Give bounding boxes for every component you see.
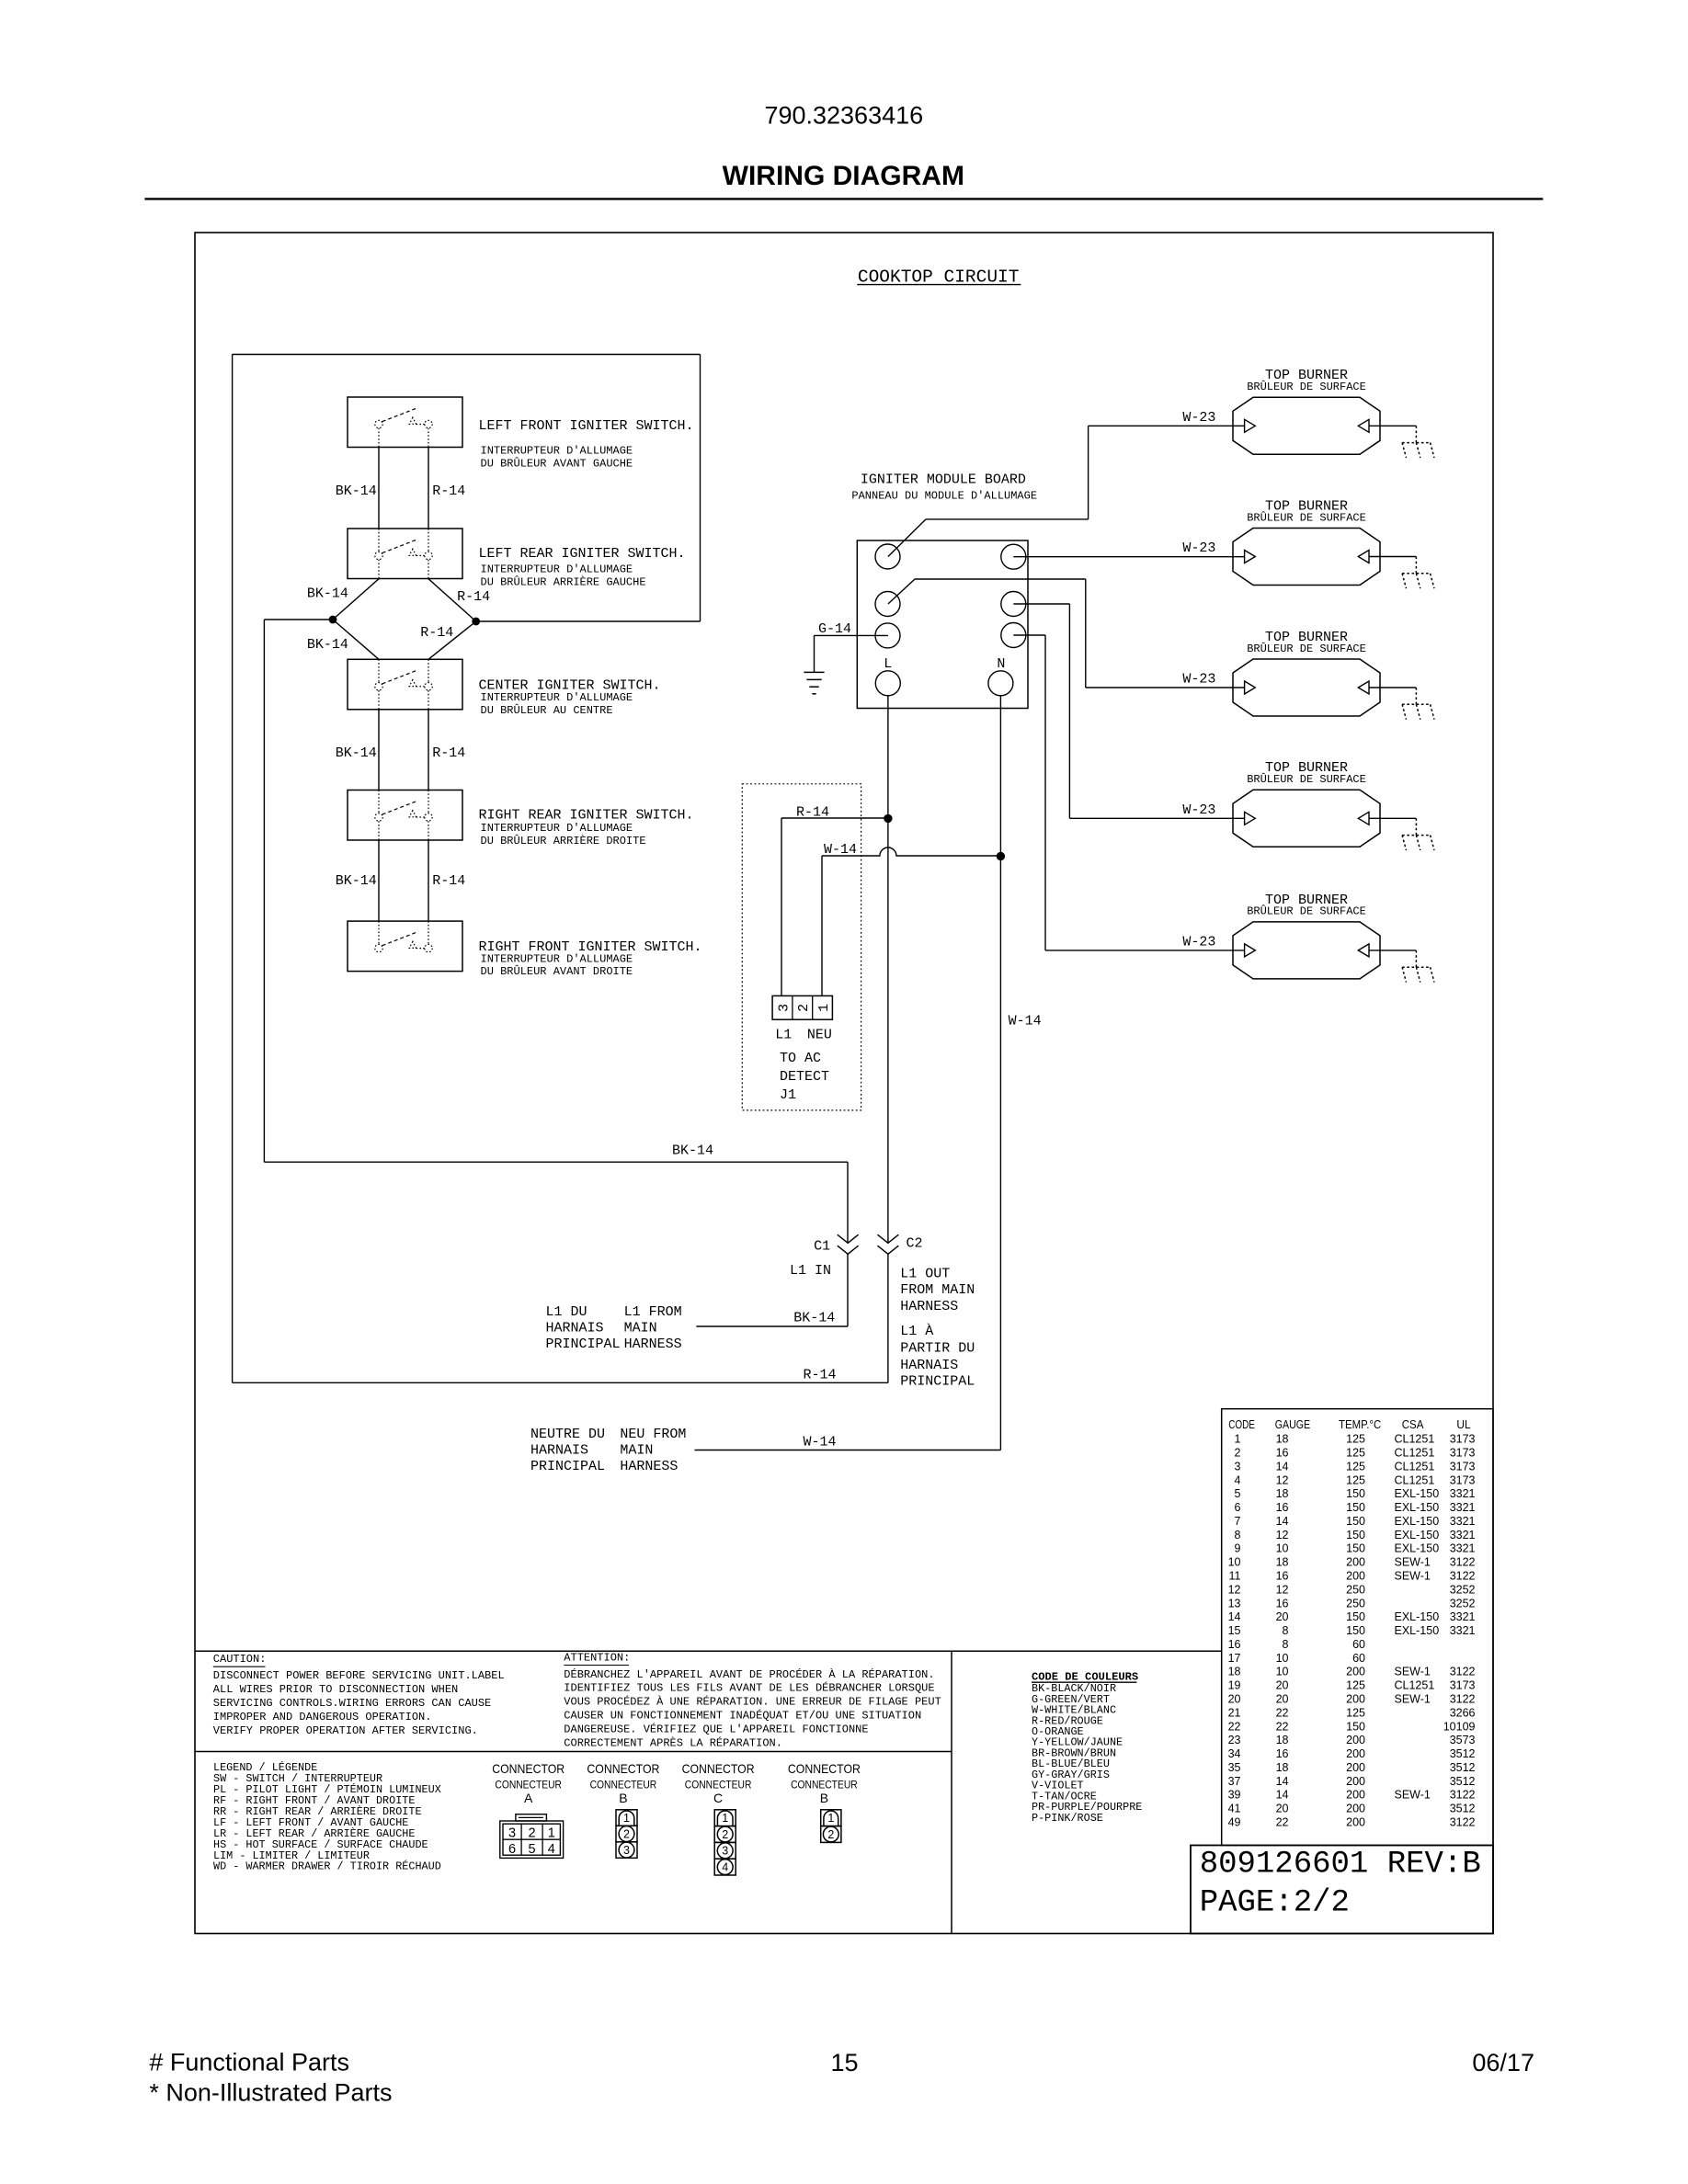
burner 4 right arrow: [1358, 812, 1369, 825]
label NEUTRE DU HARNAIS PRINCIPAL: [530, 1427, 605, 1474]
svg-text:INTERRUPTEUR D'ALLUMAGE: INTERRUPTEUR D'ALLUMAGE: [481, 822, 633, 835]
svg-text:22: 22: [1276, 1706, 1289, 1719]
wire R-14 bottom run to C2: [233, 1382, 888, 1383]
svg-text:1: 1: [827, 1812, 834, 1825]
burner 5 electrode wire: [1369, 950, 1416, 951]
wire R-14 SW-LR to node R (diagonal): [428, 579, 476, 621]
wire N drop from module: [999, 695, 1001, 1450]
connector B2 2-pin stack: [821, 1810, 841, 1843]
divider below caution section: [195, 1751, 952, 1753]
wire BK-14 SW-LR to node BK (diagonal): [333, 579, 379, 620]
svg-text:16: 16: [1276, 1747, 1289, 1760]
label RIGHT REAR IGNITER SWITCH.: [479, 808, 694, 847]
svg-text:CONNECTEUR: CONNECTEUR: [590, 1779, 657, 1792]
label LEFT REAR IGNITER SWITCH.: [479, 546, 686, 588]
burner 3 spark electrode: [1402, 688, 1434, 720]
svg-text:200: 200: [1346, 1693, 1365, 1706]
svg-text:CORRECTEMENT APRÈS LA RÉPARATI: CORRECTEMENT APRÈS LA RÉPARATION.: [564, 1735, 782, 1749]
svg-text:3573: 3573: [1450, 1734, 1476, 1746]
wire R-14 SW-LF to SW-LR: [428, 448, 429, 529]
svg-text:20: 20: [1276, 1679, 1289, 1692]
svg-text:1: 1: [722, 1812, 728, 1825]
svg-text:ALL WIRES PRIOR TO DISCONNECTI: ALL WIRES PRIOR TO DISCONNECTION WHEN: [213, 1683, 458, 1696]
caution text block: [213, 1653, 505, 1737]
svg-text:809126601 REV:B: 809126601 REV:B: [1200, 1848, 1481, 1883]
svg-text:14: 14: [1276, 1789, 1289, 1802]
svg-text:3122: 3122: [1450, 1556, 1476, 1569]
svg-text:LEFT FRONT IGNITER SWITCH.: LEFT FRONT IGNITER SWITCH.: [479, 418, 694, 434]
svg-text:17: 17: [1228, 1652, 1241, 1665]
svg-text:3321: 3321: [1450, 1501, 1476, 1514]
svg-text:CONNECTOR: CONNECTOR: [788, 1761, 861, 1776]
svg-text:SEW-1: SEW-1: [1395, 1693, 1431, 1706]
svg-text:PANNEAU DU MODULE D'ALLUMAGE: PANNEAU DU MODULE D'ALLUMAGE: [851, 489, 1037, 502]
svg-text:CL1251: CL1251: [1395, 1679, 1435, 1692]
svg-text:HARNAIS: HARNAIS: [530, 1443, 588, 1459]
svg-text:125: 125: [1346, 1460, 1365, 1473]
connector header C: [682, 1761, 755, 1805]
svg-text:6: 6: [1235, 1501, 1241, 1514]
svg-text:INTERRUPTEUR D'ALLUMAGE: INTERRUPTEUR D'ALLUMAGE: [481, 953, 633, 966]
svg-text:CL1251: CL1251: [1395, 1460, 1435, 1473]
svg-text:150: 150: [1346, 1542, 1365, 1555]
label L1 FROM MAIN HARNESS: [624, 1304, 682, 1352]
svg-text:39: 39: [1228, 1789, 1241, 1802]
svg-text:3173: 3173: [1450, 1460, 1476, 1473]
igniter switch SW-RF box: [348, 921, 462, 972]
svg-text:WIRING DIAGRAM: WIRING DIAGRAM: [723, 161, 964, 191]
module terminal pin 2 (top-right): [1001, 544, 1026, 569]
svg-text:3252: 3252: [1450, 1597, 1476, 1610]
svg-text:3321: 3321: [1450, 1542, 1476, 1555]
svg-text:37: 37: [1228, 1775, 1241, 1788]
svg-text:R-14: R-14: [432, 483, 465, 499]
label L1 NEU: [775, 1028, 832, 1043]
svg-text:* Non-Illustrated Parts: * Non-Illustrated Parts: [149, 2079, 392, 2107]
svg-text:200: 200: [1346, 1761, 1365, 1774]
wire module pin3 to top burner 3: [888, 579, 1245, 688]
svg-text:PRINCIPAL: PRINCIPAL: [530, 1459, 605, 1474]
svg-text:EXL-150: EXL-150: [1395, 1610, 1440, 1623]
svg-text:200: 200: [1346, 1803, 1365, 1815]
svg-text:3321: 3321: [1450, 1529, 1476, 1541]
svg-text:3122: 3122: [1450, 1570, 1476, 1583]
svg-text:ATTENTION:: ATTENTION:: [564, 1651, 630, 1664]
label RIGHT FRONT IGNITER SWITCH.: [479, 939, 702, 978]
label NEU FROM MAIN HARNESS: [620, 1427, 686, 1474]
igniter switch SW-RF symbol: [375, 921, 432, 952]
wire BK-14 SW-LF to SW-LR: [378, 448, 380, 529]
svg-text:B: B: [820, 1791, 828, 1805]
svg-text:INTERRUPTEUR D'ALLUMAGE: INTERRUPTEUR D'ALLUMAGE: [481, 691, 633, 704]
svg-text:3: 3: [1235, 1460, 1241, 1473]
burner 5 right arrow: [1358, 944, 1369, 957]
wire W-14 AC detect pin1 to N drop (hump over L wire): [822, 847, 1000, 995]
svg-text:14: 14: [1228, 1610, 1241, 1623]
wire L drop from module to C2: [887, 695, 889, 1243]
svg-text:EXL-150: EXL-150: [1395, 1501, 1440, 1514]
connector C1 chevrons: [838, 1234, 859, 1254]
burner 2 electrode wire: [1369, 556, 1416, 558]
svg-text:TEMP.°C: TEMP.°C: [1339, 1418, 1381, 1431]
svg-text:DANGEREUSE. VÉRIFIEZ QUE L'APP: DANGEREUSE. VÉRIFIEZ QUE L'APPAREIL FONC…: [564, 1722, 868, 1735]
svg-text:C1: C1: [814, 1239, 830, 1255]
svg-text:CSA: CSA: [1402, 1418, 1424, 1431]
svg-text:4: 4: [1235, 1473, 1241, 1486]
svg-text:R-14: R-14: [420, 625, 453, 641]
junction dot R-14 / L: [884, 814, 892, 822]
svg-text:NEU FROM: NEU FROM: [620, 1427, 686, 1442]
label L1 A PARTIR DU HARNAIS PRINCIPAL: [900, 1323, 975, 1390]
svg-text:NEU: NEU: [807, 1028, 832, 1043]
legend text block: [213, 1761, 441, 1873]
burner 2 spark electrode: [1402, 557, 1434, 589]
svg-text:EXL-150: EXL-150: [1395, 1487, 1440, 1500]
svg-text:CODE: CODE: [1228, 1418, 1255, 1431]
svg-text:J1: J1: [780, 1087, 796, 1103]
svg-text:BK-14: BK-14: [336, 745, 377, 761]
svg-text:P-PINK/ROSE: P-PINK/ROSE: [1032, 1812, 1103, 1825]
svg-text:GAUGE: GAUGE: [1275, 1418, 1310, 1431]
svg-text:4: 4: [548, 1842, 555, 1857]
wire R-14 loop left edge (down): [232, 355, 234, 1383]
svg-text:N: N: [997, 656, 1005, 672]
wire R-14 node R to loop right edge: [476, 620, 701, 622]
label TO AC DETECT J1: [780, 1051, 829, 1103]
wire module pin2 to top burner 2: [1013, 556, 1244, 558]
junction dot W-14 / N: [997, 852, 1004, 859]
svg-text:SEW-1: SEW-1: [1395, 1570, 1431, 1583]
svg-text:5: 5: [1235, 1487, 1241, 1500]
wire BK-14 below C1 to main harness: [696, 1254, 848, 1326]
connector header B: [587, 1761, 659, 1805]
svg-text:SERVICING CONTROLS.WIRING ERRO: SERVICING CONTROLS.WIRING ERRORS CAN CAU…: [213, 1697, 491, 1710]
igniter switch SW-C symbol: [375, 659, 432, 710]
svg-text:CONNECTEUR: CONNECTEUR: [495, 1779, 562, 1792]
svg-text:150: 150: [1346, 1624, 1365, 1637]
ground symbol: [804, 672, 824, 693]
svg-text:60: 60: [1352, 1652, 1365, 1665]
svg-text:CL1251: CL1251: [1395, 1447, 1435, 1460]
top burner 5: [1233, 893, 1380, 979]
wire BK node to SW-C (diagonal): [333, 620, 379, 659]
svg-text:3122: 3122: [1450, 1693, 1476, 1706]
svg-text:R-14: R-14: [432, 745, 465, 761]
svg-text:200: 200: [1346, 1734, 1365, 1746]
svg-text:A: A: [524, 1791, 533, 1805]
svg-text:250: 250: [1346, 1597, 1365, 1610]
svg-text:18: 18: [1228, 1666, 1241, 1678]
svg-text:W-23: W-23: [1182, 672, 1215, 688]
svg-text:MAIN: MAIN: [624, 1321, 657, 1337]
outer diagram border: [195, 233, 1493, 1934]
svg-text:CONNECTOR: CONNECTOR: [587, 1761, 659, 1776]
svg-text:20: 20: [1276, 1803, 1289, 1815]
svg-text:L1 OUT: L1 OUT: [900, 1267, 950, 1282]
svg-text:22: 22: [1276, 1816, 1289, 1829]
svg-text:60: 60: [1352, 1638, 1365, 1651]
svg-text:150: 150: [1346, 1501, 1365, 1514]
svg-text:200: 200: [1346, 1666, 1365, 1678]
svg-text:BRÛLEUR DE SURFACE: BRÛLEUR DE SURFACE: [1247, 510, 1366, 524]
svg-text:DETECT: DETECT: [780, 1069, 829, 1085]
svg-text:10: 10: [1276, 1652, 1289, 1665]
connector header B: [788, 1761, 861, 1805]
svg-text:14: 14: [1276, 1775, 1289, 1788]
wire gauge table box: [1222, 1409, 1493, 1846]
svg-text:200: 200: [1346, 1570, 1365, 1583]
svg-text:W-14: W-14: [1009, 1014, 1042, 1029]
svg-text:8: 8: [1283, 1624, 1289, 1637]
svg-text:CONNECTOR: CONNECTOR: [492, 1761, 565, 1776]
svg-text:18: 18: [1276, 1556, 1289, 1569]
wire module pin4 to top burner 4: [1013, 604, 1244, 818]
svg-text:3122: 3122: [1450, 1666, 1476, 1678]
top burner 4: [1233, 760, 1380, 847]
svg-text:R-14: R-14: [457, 589, 490, 605]
svg-text:2: 2: [722, 1828, 728, 1841]
svg-text:PAGE:2/2: PAGE:2/2: [1200, 1886, 1350, 1921]
svg-text:EXL-150: EXL-150: [1395, 1529, 1440, 1541]
svg-text:6: 6: [508, 1842, 516, 1857]
svg-text:WD - WARMER DRAWER / TIROIR RÉ: WD - WARMER DRAWER / TIROIR RÉCHAUD: [213, 1860, 441, 1873]
svg-text:3122: 3122: [1450, 1789, 1476, 1802]
svg-text:125: 125: [1346, 1473, 1365, 1486]
wire R-14 SW-C to SW-RR: [428, 710, 429, 791]
label L1 OUT FROM MAIN HARNESS: [900, 1267, 975, 1314]
svg-text:16: 16: [1228, 1638, 1241, 1651]
igniter switch SW-LR box: [348, 529, 462, 579]
svg-text:150: 150: [1346, 1515, 1365, 1528]
igniter switch SW-LF box: [348, 397, 462, 448]
svg-text:INTERRUPTEUR D'ALLUMAGE: INTERRUPTEUR D'ALLUMAGE: [481, 563, 633, 575]
svg-text:125: 125: [1346, 1706, 1365, 1719]
svg-text:C2: C2: [907, 1236, 923, 1252]
svg-text:CL1251: CL1251: [1395, 1433, 1435, 1446]
svg-text:8: 8: [1235, 1529, 1241, 1541]
footer functional parts note: [149, 2049, 392, 2107]
burner 3 right arrow: [1358, 681, 1369, 694]
svg-text:12: 12: [1228, 1583, 1241, 1596]
svg-text:12: 12: [1276, 1583, 1289, 1596]
svg-text:W-23: W-23: [1182, 540, 1215, 556]
svg-text:IGNITER MODULE BOARD: IGNITER MODULE BOARD: [861, 472, 1026, 488]
svg-text:2: 2: [623, 1828, 630, 1841]
burner 5 spark electrode: [1402, 950, 1434, 983]
svg-text:BK-14: BK-14: [307, 637, 348, 653]
divider above caution section: [195, 1650, 1222, 1652]
burner 5 left arrow: [1245, 944, 1256, 957]
svg-text:PARTIR DU: PARTIR DU: [900, 1341, 975, 1357]
svg-text:L1 IN: L1 IN: [790, 1263, 831, 1279]
svg-text:2: 2: [796, 1004, 812, 1012]
svg-text:06/17: 06/17: [1472, 2049, 1534, 2076]
svg-text:1: 1: [623, 1812, 630, 1825]
wire BK-14 node BK to left drop: [264, 619, 333, 620]
igniter switch SW-LF symbol: [375, 408, 432, 448]
svg-text:TO AC: TO AC: [780, 1051, 821, 1066]
svg-text:# Functional Parts: # Functional Parts: [149, 2049, 349, 2076]
burner 4 spark electrode: [1402, 818, 1434, 850]
svg-text:EXL-150: EXL-150: [1395, 1542, 1440, 1555]
svg-text:1: 1: [548, 1826, 555, 1840]
top burner 3: [1233, 630, 1380, 716]
svg-text:DU BRÛLEUR AVANT DROITE: DU BRÛLEUR AVANT DROITE: [481, 964, 633, 978]
svg-text:3252: 3252: [1450, 1583, 1476, 1596]
igniter switch SW-LR symbol: [375, 529, 432, 579]
svg-text:20: 20: [1228, 1693, 1241, 1706]
svg-text:3512: 3512: [1450, 1775, 1476, 1788]
svg-text:R-14: R-14: [804, 1368, 837, 1383]
svg-text:125: 125: [1346, 1447, 1365, 1460]
svg-text:150: 150: [1346, 1720, 1365, 1733]
svg-text:1: 1: [1235, 1433, 1241, 1446]
svg-text:16: 16: [1276, 1597, 1289, 1610]
label CENTER IGNITER SWITCH.: [479, 678, 661, 717]
svg-text:1: 1: [816, 1004, 832, 1012]
connector B 3-pin stack: [616, 1810, 637, 1859]
svg-text:B: B: [619, 1791, 627, 1805]
svg-text:20: 20: [1276, 1693, 1289, 1706]
svg-text:3: 3: [623, 1844, 630, 1857]
svg-text:SEW-1: SEW-1: [1395, 1789, 1431, 1802]
burner 4 electrode wire: [1369, 817, 1416, 819]
svg-text:10: 10: [1276, 1666, 1289, 1678]
svg-text:L1 DU: L1 DU: [546, 1304, 587, 1320]
label IGNITER MODULE BOARD: [851, 472, 1037, 503]
wire R-14 SW-RR to SW-RF: [428, 840, 429, 921]
svg-text:10: 10: [1228, 1556, 1241, 1569]
svg-text:200: 200: [1346, 1556, 1365, 1569]
svg-text:LEFT REAR IGNITER SWITCH.: LEFT REAR IGNITER SWITCH.: [479, 546, 686, 562]
svg-text:4: 4: [722, 1861, 728, 1874]
AC detect J1 dashed enclosure: [742, 784, 861, 1110]
wire BK-14 drop to C1: [847, 1162, 849, 1243]
svg-text:150: 150: [1346, 1610, 1365, 1623]
svg-text:W-23: W-23: [1182, 410, 1215, 426]
svg-text:12: 12: [1276, 1473, 1289, 1486]
svg-text:21: 21: [1228, 1706, 1241, 1719]
connector header A: [492, 1761, 565, 1805]
svg-text:C: C: [713, 1791, 723, 1805]
svg-text:EXL-150: EXL-150: [1395, 1624, 1440, 1637]
wire below C2 to R-14 bottom run: [887, 1254, 889, 1382]
wire gauge table rows: [1228, 1433, 1476, 1829]
svg-text:5: 5: [529, 1842, 536, 1857]
svg-text:150: 150: [1346, 1487, 1365, 1500]
connector C 4-pin stack: [714, 1810, 736, 1875]
svg-text:BK-14: BK-14: [672, 1143, 713, 1158]
svg-text:19: 19: [1228, 1679, 1241, 1692]
colour code list: [1032, 1671, 1142, 1825]
svg-text:HARNESS: HARNESS: [624, 1337, 682, 1352]
svg-text:PRINCIPAL: PRINCIPAL: [546, 1337, 621, 1352]
svg-text:49: 49: [1228, 1816, 1241, 1829]
svg-text:2: 2: [1235, 1447, 1241, 1460]
burner 3 left arrow: [1245, 681, 1256, 694]
svg-text:35: 35: [1228, 1761, 1241, 1774]
wire R node to SW-C (diagonal): [428, 621, 476, 659]
burner 1 right arrow: [1358, 419, 1369, 432]
svg-text:R-14: R-14: [432, 873, 465, 889]
svg-text:VOUS PROCÉDEZ À UNE RÉPARATION: VOUS PROCÉDEZ À UNE RÉPARATION. UNE ERRE…: [564, 1695, 941, 1709]
burner 2 right arrow: [1358, 551, 1369, 563]
svg-text:CONNECTOR: CONNECTOR: [682, 1761, 755, 1776]
svg-text:DU BRÛLEUR ARRIÈRE GAUCHE: DU BRÛLEUR ARRIÈRE GAUCHE: [481, 574, 646, 588]
svg-text:3122: 3122: [1450, 1816, 1476, 1829]
wire R-14 AC detect pin3 to L drop: [781, 818, 888, 995]
svg-text:BRÛLEUR DE SURFACE: BRÛLEUR DE SURFACE: [1247, 772, 1366, 786]
igniter switch SW-C box: [348, 659, 462, 710]
svg-text:R-14: R-14: [796, 805, 829, 821]
burner 1 left arrow: [1245, 419, 1256, 432]
svg-text:BRÛLEUR DE SURFACE: BRÛLEUR DE SURFACE: [1247, 380, 1366, 393]
burner 1 electrode wire: [1369, 425, 1416, 427]
svg-text:16: 16: [1276, 1570, 1289, 1583]
svg-text:3: 3: [508, 1826, 516, 1840]
svg-text:13: 13: [1228, 1597, 1241, 1610]
header rule: [144, 198, 1543, 199]
svg-text:HARNESS: HARNESS: [620, 1459, 678, 1474]
svg-text:125: 125: [1346, 1679, 1365, 1692]
svg-text:DU BRÛLEUR AVANT GAUCHE: DU BRÛLEUR AVANT GAUCHE: [481, 456, 633, 470]
svg-text:SEW-1: SEW-1: [1395, 1556, 1431, 1569]
svg-text:HARNESS: HARNESS: [900, 1299, 958, 1314]
svg-text:3512: 3512: [1450, 1747, 1476, 1760]
svg-text:W-14: W-14: [824, 842, 857, 858]
svg-text:L: L: [884, 656, 892, 672]
wire BK-14 left drop (down): [263, 620, 265, 1162]
svg-text:7: 7: [1235, 1515, 1241, 1528]
top burner 2: [1233, 499, 1380, 586]
wire module pin1 to top burner 1: [888, 426, 1245, 556]
svg-text:18: 18: [1276, 1734, 1289, 1746]
svg-text:10: 10: [1276, 1542, 1289, 1555]
svg-text:NEUTRE DU: NEUTRE DU: [530, 1427, 605, 1442]
svg-text:W-14: W-14: [804, 1435, 837, 1450]
module terminal pin 6 (low-right): [1001, 623, 1026, 648]
svg-text:2: 2: [529, 1826, 536, 1840]
svg-text:VERIFY PROPER OPERATION AFTER: VERIFY PROPER OPERATION AFTER SERVICING.: [213, 1724, 478, 1737]
svg-text:14: 14: [1276, 1460, 1289, 1473]
svg-text:150: 150: [1346, 1529, 1365, 1541]
document number box: [1191, 1846, 1493, 1934]
svg-text:200: 200: [1346, 1747, 1365, 1760]
svg-text:250: 250: [1346, 1583, 1365, 1596]
igniter switch SW-RR box: [348, 791, 462, 841]
svg-text:2: 2: [827, 1828, 834, 1841]
attention text block: [564, 1651, 941, 1749]
svg-text:HARNAIS: HARNAIS: [546, 1321, 604, 1337]
svg-text:9: 9: [1235, 1542, 1241, 1555]
svg-text:W-23: W-23: [1182, 934, 1215, 950]
burner 2 left arrow: [1245, 551, 1256, 563]
svg-text:11: 11: [1229, 1570, 1241, 1583]
burner 1 spark electrode: [1402, 426, 1434, 458]
svg-text:PRINCIPAL: PRINCIPAL: [900, 1374, 975, 1390]
svg-text:EXL-150: EXL-150: [1395, 1515, 1440, 1528]
igniter module board U1 box: [857, 540, 1028, 709]
svg-text:BK-14: BK-14: [307, 586, 348, 602]
svg-text:3512: 3512: [1450, 1803, 1476, 1815]
svg-text:BK-14: BK-14: [336, 483, 377, 499]
svg-text:12: 12: [1276, 1529, 1289, 1541]
svg-text:23: 23: [1228, 1734, 1241, 1746]
svg-text:22: 22: [1228, 1720, 1241, 1733]
wire BK-14 SW-RR to SW-RF: [378, 840, 380, 921]
svg-text:3266: 3266: [1450, 1706, 1476, 1719]
svg-text:3173: 3173: [1450, 1473, 1476, 1486]
